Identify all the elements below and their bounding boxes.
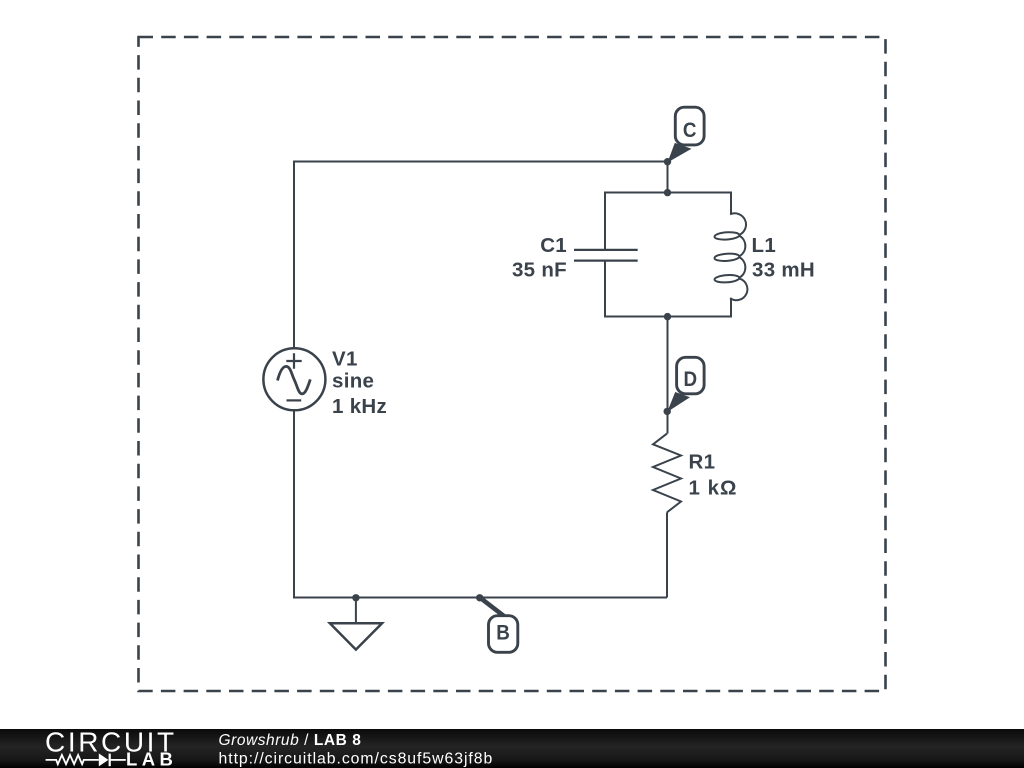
svg-text:L1: L1 (752, 234, 777, 257)
svg-text:R1: R1 (689, 451, 716, 474)
svg-text:1 kHz: 1 kHz (332, 395, 387, 418)
svg-text:Growshrub / LAB 8: Growshrub / LAB 8 (219, 732, 362, 749)
svg-text:V1: V1 (332, 347, 358, 370)
svg-text:33 mH: 33 mH (752, 259, 815, 282)
svg-text:LAB: LAB (126, 749, 177, 768)
svg-text:B: B (496, 620, 510, 644)
svg-text:C1: C1 (540, 234, 567, 257)
svg-text:http://circuitlab.com/cs8uf5w6: http://circuitlab.com/cs8uf5w63jf8b (219, 750, 494, 767)
svg-text:D: D (684, 367, 698, 391)
svg-text:35 nF: 35 nF (512, 259, 567, 282)
svg-text:C: C (683, 118, 697, 142)
svg-text:1 kΩ: 1 kΩ (689, 476, 738, 499)
svg-text:sine: sine (332, 370, 374, 393)
